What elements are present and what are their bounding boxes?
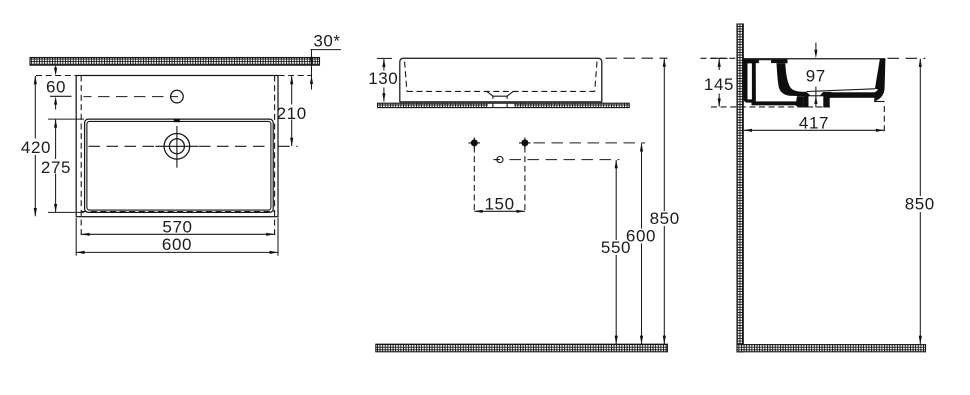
drain pipe hidden ticks	[493, 96, 507, 99]
basin rim outer (rounded)	[85, 119, 274, 212]
hidden inner edge bottom (dashed)	[81, 211, 274, 213]
dim 420	[21, 76, 76, 217]
dim 150	[474, 195, 525, 214]
svg-text:275: 275	[41, 158, 71, 177]
section: overflow slit	[787, 65, 789, 73]
hidden inner edge right (dashed)	[274, 76, 276, 238]
section: back fixing bars with channel	[744, 59, 757, 102]
dim 850 (front)	[650, 58, 680, 344]
dim 97	[806, 43, 826, 108]
dim 550	[601, 160, 631, 345]
section: basin interior bottom line	[807, 89, 875, 92]
svg-text:417: 417	[799, 114, 829, 133]
hidden inner edge left (dashed)	[80, 76, 82, 238]
wall strip (plan)	[30, 58, 320, 66]
dim 850 (side)	[888, 58, 935, 344]
svg-text:60: 60	[46, 77, 66, 96]
dim 210	[277, 76, 311, 147]
dim 600 (height)	[626, 143, 656, 344]
drain crosshair	[156, 126, 199, 168]
section: drain pipe (white)	[809, 96, 824, 107]
svg-text:850: 850	[905, 195, 935, 214]
dim 570	[81, 218, 274, 237]
dashed level line holes	[534, 142, 646, 144]
section: lower fixing flange bar	[752, 101, 798, 105]
section: basin back wall J-profile	[777, 63, 807, 96]
dim 145	[701, 58, 831, 107]
fixing hole right	[519, 138, 531, 149]
basin front bottom edge	[400, 101, 602, 103]
drain centerline dashed	[89, 145, 156, 147]
drain recess (front)	[487, 92, 513, 97]
basin outer rectangle (plan 600x420)	[76, 76, 278, 217]
dashed level line rim	[606, 57, 668, 59]
section: front wall with foot	[874, 59, 885, 102]
svg-text:210: 210	[277, 104, 307, 123]
section: underside slab	[830, 92, 875, 98]
basin front outline	[400, 58, 602, 102]
section: hanger cavity	[756, 63, 777, 101]
drain outer circle	[164, 134, 190, 160]
shelf strip (front)	[378, 103, 630, 107]
overflow slot mark (plan)	[174, 119, 180, 123]
svg-text:150: 150	[485, 195, 515, 214]
faucet hole circle	[171, 90, 184, 103]
fixing hole left	[469, 138, 481, 149]
dim 60	[46, 66, 72, 110]
svg-text:570: 570	[162, 218, 192, 237]
hidden inner wall right (front)	[595, 62, 597, 92]
svg-text:30*: 30*	[313, 32, 340, 51]
svg-text:97: 97	[806, 67, 826, 86]
faucet hole centerline	[84, 96, 179, 98]
basin rim inner (rounded)	[87, 121, 271, 210]
dim 600	[76, 218, 278, 256]
dim 275	[41, 119, 84, 212]
svg-text:600: 600	[626, 227, 656, 246]
wall strip (side)	[737, 24, 743, 352]
floor strip (side)	[737, 345, 926, 352]
hidden basin bottom (front)	[407, 90, 595, 92]
drain inner circle	[169, 139, 184, 154]
svg-text:130: 130	[368, 69, 398, 88]
svg-text:145: 145	[704, 75, 734, 94]
dim 130	[368, 58, 398, 101]
dashed drop lines from fixing holes	[474, 147, 525, 214]
svg-text:850: 850	[650, 209, 680, 228]
section: drain entry funnel (white)	[806, 92, 823, 95]
section: drain block	[804, 92, 832, 108]
dimension 30* leader and text	[310, 32, 341, 90]
hidden inner wall left (front)	[405, 62, 407, 92]
section: flange to drain junction	[796, 96, 804, 107]
svg-text:600: 600	[162, 235, 192, 254]
dashed level line drain	[510, 159, 620, 161]
section: front foot bottom edge	[874, 101, 885, 103]
svg-text:420: 420	[21, 138, 51, 157]
floor strip (front)	[376, 344, 668, 352]
drain pipe circle (front)	[497, 157, 503, 163]
dim 417	[744, 106, 885, 135]
section: rim top line	[744, 58, 886, 60]
section: top band with overflow slot	[744, 59, 788, 63]
